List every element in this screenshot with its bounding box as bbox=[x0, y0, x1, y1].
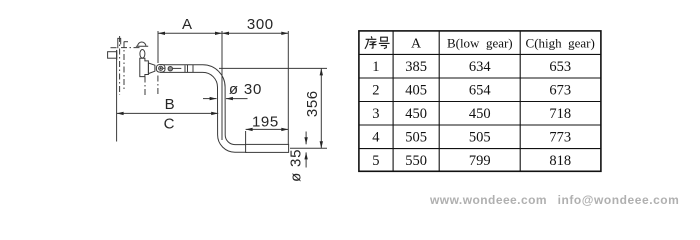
svg-text:4: 4 bbox=[372, 130, 380, 146]
svg-text:356: 356 bbox=[304, 90, 321, 117]
svg-text:195: 195 bbox=[252, 113, 279, 130]
svg-text:818: 818 bbox=[549, 153, 571, 169]
svg-text:673: 673 bbox=[549, 83, 571, 99]
svg-text:773: 773 bbox=[549, 130, 571, 146]
svg-text:B: B bbox=[165, 96, 175, 113]
svg-text:C: C bbox=[164, 115, 175, 132]
svg-text:505: 505 bbox=[405, 130, 427, 146]
svg-text:C(high gear): C(high gear) bbox=[526, 35, 595, 50]
svg-text:A: A bbox=[182, 16, 192, 33]
svg-text:450: 450 bbox=[405, 106, 427, 122]
svg-text:634: 634 bbox=[469, 59, 492, 75]
svg-text:ø 30: ø 30 bbox=[229, 81, 262, 98]
svg-text:653: 653 bbox=[549, 59, 571, 75]
svg-text:385: 385 bbox=[405, 59, 427, 75]
svg-text:300: 300 bbox=[247, 16, 274, 33]
svg-text:ø 35: ø 35 bbox=[287, 149, 304, 182]
svg-text:3: 3 bbox=[372, 106, 379, 122]
svg-text:info@wondeee.com: info@wondeee.com bbox=[558, 193, 680, 207]
svg-text:405: 405 bbox=[405, 83, 427, 99]
svg-text:1: 1 bbox=[372, 59, 379, 75]
svg-text:718: 718 bbox=[549, 106, 571, 122]
svg-text:www.wondeee.com: www.wondeee.com bbox=[429, 193, 547, 207]
svg-text:450: 450 bbox=[469, 106, 491, 122]
svg-text:5: 5 bbox=[372, 153, 379, 169]
svg-text:505: 505 bbox=[469, 130, 491, 146]
svg-text:799: 799 bbox=[469, 153, 491, 169]
svg-text:654: 654 bbox=[469, 83, 492, 99]
svg-text:B(low gear): B(low gear) bbox=[447, 35, 513, 50]
svg-text:2: 2 bbox=[372, 83, 379, 99]
svg-text:550: 550 bbox=[405, 153, 427, 169]
svg-text:A: A bbox=[411, 36, 422, 51]
